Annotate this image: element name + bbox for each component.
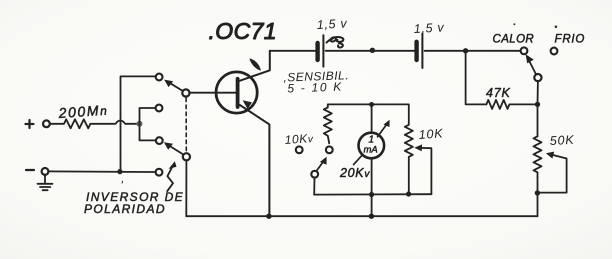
potentiometer 50K (534, 136, 542, 177)
wire minus bus vertical (121, 76, 156, 171)
contact pole2 upper throw (156, 137, 163, 144)
wire minus rail (49, 170, 156, 173)
wire top rail left (270, 50, 316, 52)
ink scribble blot (327, 37, 344, 47)
switch blade pole1 with arrow (164, 80, 189, 97)
contact sens throw (326, 146, 333, 153)
transistor Q1 OC71 (216, 51, 270, 216)
resistor 47K (486, 100, 537, 109)
terminal - (negative input) (26, 168, 48, 175)
node bottom rail meter junction (369, 214, 374, 219)
node 50K bottom junction (535, 190, 540, 195)
wire meter branch horizontal (328, 103, 409, 105)
terminal + (positive input) (26, 120, 50, 128)
wire sens common down (313, 178, 315, 195)
wire calor common to 47K node (537, 81, 539, 136)
switch blade calor with arrow (526, 54, 542, 81)
node rail-meter junction (370, 48, 375, 53)
node bus-minus junction (117, 169, 122, 174)
label 20Kv with leader (354, 155, 362, 164)
resistor R 200M zigzag (50, 119, 115, 128)
meter needle arrow (378, 120, 390, 137)
svg-text:1,5 v: 1,5 v (316, 16, 347, 32)
wire top rail mid (326, 50, 415, 52)
svg-text:5 - 10 K: 5 - 10 K (287, 80, 343, 96)
arrow leaf decoration (250, 58, 262, 70)
contact FRIO (551, 48, 558, 55)
battery B1 1.5v (318, 35, 324, 66)
wire meter bottom horizontal (314, 193, 431, 195)
node meter-top junction (369, 102, 374, 107)
wire to pole2 upper throw (140, 124, 157, 141)
node junction plus-branch (137, 121, 143, 127)
wiper arrow 10K (414, 144, 431, 194)
wire hump crossover over minus bus (116, 121, 139, 124)
battery B2 1.5v (417, 34, 423, 68)
wire base (189, 92, 236, 94)
node meter-bottom junction (369, 192, 374, 197)
arrow squiggle pointing to switch (167, 161, 176, 191)
wire pole2 common down to bottom rail (185, 160, 187, 216)
meter M 1mA (359, 105, 385, 217)
ink specks (122, 23, 558, 184)
ground (38, 175, 53, 190)
svg-text:FRIO: FRIO (555, 34, 586, 46)
svg-text:10Kv: 10Kv (284, 131, 314, 147)
wire 47K branch vertical (466, 51, 487, 105)
svg-text:1,5 v: 1,5 v (413, 20, 444, 36)
switch blade sens with arrow (311, 157, 326, 178)
potentiometer 10K (405, 104, 413, 194)
svg-text:50K: 50K (549, 133, 574, 148)
svg-text:10K: 10K (418, 126, 444, 142)
contact pole1 upper throw (156, 74, 163, 81)
resistor 5-10K sensitivity (324, 104, 332, 143)
contact CALOR (521, 47, 528, 54)
svg-text:CALOR: CALOR (493, 34, 535, 46)
node 10K-bottom junction (406, 191, 411, 196)
svg-text:.OC71: .OC71 (209, 18, 277, 44)
node rail-47K junction (463, 48, 468, 53)
svg-text:mA: mA (364, 145, 378, 156)
node bottom rail emitter junction (266, 214, 271, 219)
contact pole2 lower throw (156, 169, 163, 176)
mechanical link dashed (185, 98, 187, 151)
wire 50K bottom to rail (537, 177, 539, 216)
contact sens open 10Kv (296, 146, 303, 153)
svg-text:20Kv: 20Kv (339, 166, 370, 180)
contact pole1 lower throw (156, 105, 163, 112)
wire to pole1 lower throw (140, 108, 156, 124)
wire top rail right (425, 50, 521, 52)
wiper arrow 50K (540, 152, 567, 193)
svg-text:POLARIDAD: POLARIDAD (84, 202, 166, 216)
switch blade pole2 with arrow (164, 142, 190, 160)
svg-text:47K: 47K (486, 86, 511, 100)
wire bottom rail (186, 215, 537, 217)
node 47K-pot junction (535, 102, 540, 107)
